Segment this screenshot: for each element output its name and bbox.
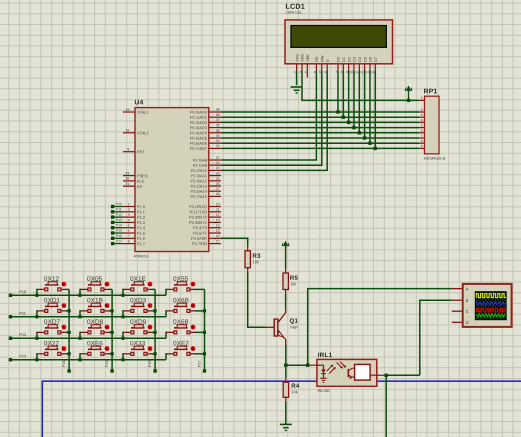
label U4 bbox=[134, 99, 143, 106]
svg-text:0XD8: 0XD8 bbox=[87, 319, 104, 326]
svg-text:38: 38 bbox=[216, 113, 220, 117]
wire LCD RW to P2.1 bbox=[221, 71, 322, 166]
label RP1 bbox=[424, 88, 438, 95]
junction scope-A branch bbox=[306, 364, 309, 367]
power VCC (RP1) bbox=[405, 85, 412, 102]
svg-text:27: 27 bbox=[216, 187, 220, 191]
junction node D3/P0.3 bbox=[352, 126, 355, 129]
opto link IRL1 (IRLINK) bbox=[309, 359, 386, 386]
svg-text:23: 23 bbox=[216, 166, 220, 170]
junction col2 row4 pin bbox=[111, 352, 114, 355]
resistor R3 bbox=[245, 245, 250, 273]
wire R5 bottom to Q1 collector bbox=[285, 294, 287, 309]
terminal P14 at U4 pin 5 bbox=[111, 223, 135, 229]
svg-text:P10: P10 bbox=[116, 202, 122, 206]
svg-text:P13: P13 bbox=[116, 218, 122, 222]
oscilloscope (4-channel) bbox=[463, 284, 512, 327]
svg-text:P16: P16 bbox=[148, 360, 152, 367]
svg-text:10: 10 bbox=[216, 202, 220, 206]
wire P0.7 to RP1 pin 9 bbox=[221, 147, 419, 149]
button 0X12 (row 1 col 1) bbox=[37, 276, 69, 295]
terminal P16 at U4 pin 7 bbox=[111, 234, 135, 240]
svg-text:7: 7 bbox=[335, 70, 337, 74]
svg-text:P1.0: P1.0 bbox=[137, 204, 146, 209]
label IRLINK bbox=[317, 389, 330, 393]
label R5 value 10k bbox=[290, 282, 296, 286]
wire P0.5 to RP1 pin 7 bbox=[221, 137, 419, 139]
svg-text:26: 26 bbox=[216, 182, 220, 186]
svg-text:D0: D0 bbox=[337, 57, 341, 62]
svg-text:5: 5 bbox=[128, 223, 130, 227]
svg-text:10: 10 bbox=[349, 70, 353, 74]
wire P3.6 to R3 top bbox=[221, 238, 248, 246]
svg-text:34: 34 bbox=[216, 134, 220, 138]
svg-text:7: 7 bbox=[128, 234, 130, 238]
svg-text:P1.3: P1.3 bbox=[137, 220, 146, 225]
svg-text:33: 33 bbox=[216, 139, 220, 143]
junction node D2/P0.2 bbox=[347, 121, 350, 124]
button 0X68 (row 3 col 4) bbox=[166, 319, 205, 338]
wire keypad row 3 (P12) bbox=[10, 337, 166, 339]
svg-text:Q1: Q1 bbox=[289, 318, 298, 325]
svg-text:35: 35 bbox=[216, 129, 220, 133]
svg-text:0X05: 0X05 bbox=[87, 276, 103, 283]
resistor R4 bbox=[283, 377, 288, 402]
svg-text:0X33: 0X33 bbox=[130, 340, 146, 347]
svg-text:RESPACK-8: RESPACK-8 bbox=[424, 157, 445, 161]
svg-text:P15: P15 bbox=[105, 360, 109, 367]
junction row4 elbow col3 bbox=[121, 358, 124, 361]
svg-text:0X6B: 0X6B bbox=[173, 297, 189, 304]
wire P0.6 to RP1 pin 8 bbox=[221, 142, 419, 144]
svg-text:P2.7/A15: P2.7/A15 bbox=[191, 194, 208, 199]
junction node D6/P0.6 bbox=[368, 142, 371, 145]
wire LCD E to P2.2 bbox=[221, 71, 327, 171]
svg-text:2: 2 bbox=[421, 108, 423, 112]
svg-text:5: 5 bbox=[421, 123, 423, 127]
wire P0.1 to RP1 pin 3 bbox=[221, 116, 419, 118]
terminal P10 bbox=[9, 289, 27, 297]
wire P0.4 to RP1 pin 6 bbox=[221, 132, 419, 134]
svg-text:P3.3/INT1: P3.3/INT1 bbox=[189, 220, 208, 225]
wire LCD VSS to ground bbox=[296, 71, 298, 86]
svg-text:P1.5: P1.5 bbox=[137, 231, 146, 236]
junction col3 row4 pin bbox=[154, 352, 157, 355]
wire LCD D5 vertical bbox=[364, 71, 366, 139]
svg-text:36: 36 bbox=[216, 123, 220, 127]
wire LCD D2 vertical bbox=[348, 71, 350, 123]
svg-text:12: 12 bbox=[360, 70, 364, 74]
svg-text:7: 7 bbox=[421, 134, 423, 138]
svg-text:P3.6/WR: P3.6/WR bbox=[191, 236, 207, 241]
svg-text:P3.2/INT0: P3.2/INT0 bbox=[189, 215, 208, 220]
junction node D5/P0.5 bbox=[363, 136, 366, 139]
RP1 pin numbers 1-9 bbox=[421, 96, 423, 148]
svg-text:D: D bbox=[466, 320, 469, 325]
svg-text:28: 28 bbox=[216, 192, 220, 196]
U4 left pin numbers bbox=[125, 108, 129, 186]
button 0XD7 (row 3 col 1) bbox=[37, 319, 69, 338]
junction col2 row3 pin bbox=[111, 331, 114, 334]
svg-text:R4: R4 bbox=[291, 383, 300, 390]
svg-text:2: 2 bbox=[128, 208, 130, 212]
svg-text:PNP: PNP bbox=[290, 326, 298, 330]
LCD pin stubs bbox=[297, 64, 376, 77]
junction col1 row4 pin bbox=[68, 352, 71, 355]
svg-text:LM016L: LM016L bbox=[286, 10, 303, 15]
wire blue bus (bottom-left L shape) bbox=[42, 381, 521, 437]
wire node to IRL1 input bbox=[286, 364, 309, 366]
wire LCD D3 vertical bbox=[353, 71, 355, 128]
terminal P12 bbox=[9, 332, 27, 340]
terminal P13 at U4 pin 4 bbox=[111, 218, 135, 224]
junction row4 elbow col2 bbox=[78, 358, 81, 361]
svg-text:4: 4 bbox=[128, 218, 130, 222]
junction row2 elbow col1 bbox=[35, 315, 38, 318]
svg-text:P10: P10 bbox=[19, 289, 27, 294]
ground (R4) bbox=[280, 424, 292, 430]
button 0XD3 (row 2 col 3) bbox=[123, 297, 155, 316]
terminal P15 at U4 pin 6 bbox=[111, 229, 135, 235]
svg-text:0X55: 0X55 bbox=[173, 276, 189, 283]
junction row1 elbow col3 bbox=[121, 294, 124, 297]
wire keypad column 4 (P17) bbox=[204, 289, 206, 369]
svg-text:6: 6 bbox=[421, 129, 423, 133]
svg-text:P11: P11 bbox=[116, 207, 122, 211]
svg-text:0XD7: 0XD7 bbox=[44, 319, 61, 326]
button 0X6B (row 2 col 4) bbox=[166, 297, 205, 316]
junction node D1/P0.1 bbox=[342, 116, 345, 119]
svg-text:PSEN: PSEN bbox=[137, 173, 148, 178]
U4 right pin stubs bbox=[209, 112, 221, 244]
svg-text:0XD3: 0XD3 bbox=[130, 297, 147, 304]
junction IRL1 output branch bbox=[385, 374, 388, 377]
svg-text:6: 6 bbox=[324, 70, 326, 74]
svg-text:P11: P11 bbox=[19, 311, 26, 316]
svg-text:1: 1 bbox=[128, 202, 130, 206]
wire LCD D6 vertical bbox=[369, 71, 371, 144]
label R4 value 10k bbox=[291, 390, 297, 394]
junction col1 row2 pin bbox=[68, 309, 71, 312]
label R3 value 10k bbox=[253, 260, 259, 264]
svg-text:P3.1/TXD: P3.1/TXD bbox=[190, 209, 207, 214]
terminal P14 bbox=[62, 360, 71, 372]
svg-text:RP1: RP1 bbox=[424, 88, 438, 95]
svg-text:21: 21 bbox=[216, 156, 220, 160]
svg-text:R3: R3 bbox=[252, 253, 261, 260]
svg-text:P1.2: P1.2 bbox=[137, 215, 146, 220]
svg-text:D5: D5 bbox=[363, 57, 367, 62]
svg-text:P14: P14 bbox=[116, 223, 122, 227]
svg-text:8: 8 bbox=[421, 139, 423, 143]
wire R4 top bbox=[285, 365, 287, 377]
junction col4 row2 pin bbox=[203, 309, 206, 312]
svg-text:14: 14 bbox=[216, 223, 220, 227]
terminal P11 at U4 pin 2 bbox=[111, 207, 135, 213]
svg-text:11: 11 bbox=[216, 208, 220, 212]
svg-text:EA: EA bbox=[137, 184, 143, 189]
svg-text:11: 11 bbox=[355, 70, 359, 74]
svg-text:P1.1: P1.1 bbox=[137, 209, 146, 214]
U4 right pin numbers bbox=[216, 108, 220, 244]
svg-text:0X1B: 0X1B bbox=[87, 297, 103, 304]
svg-text:1: 1 bbox=[421, 96, 423, 100]
svg-text:P3.4/T0: P3.4/T0 bbox=[193, 225, 208, 230]
svg-text:P17: P17 bbox=[116, 239, 122, 243]
svg-text:P1.7: P1.7 bbox=[137, 241, 146, 246]
wire P0.3 to RP1 pin 5 bbox=[221, 127, 419, 129]
junction col4 row4 pin bbox=[203, 352, 206, 355]
wire keypad column 2 (P15) bbox=[111, 289, 113, 369]
svg-text:P15: P15 bbox=[116, 229, 122, 233]
LCD LCD1 (LM016L) bbox=[285, 20, 393, 64]
svg-text:P1.6: P1.6 bbox=[137, 236, 146, 241]
svg-text:29: 29 bbox=[125, 171, 129, 175]
button 0XD9 (row 3 col 3) bbox=[123, 319, 155, 338]
label AT89C51 bbox=[134, 254, 149, 258]
svg-text:RST: RST bbox=[137, 149, 146, 154]
svg-text:19: 19 bbox=[125, 108, 129, 112]
junction col3 row3 pin bbox=[154, 331, 157, 334]
wire IRL1 output bbox=[385, 374, 420, 376]
label LM016L bbox=[286, 10, 303, 15]
wire LCD VDD to VCC rail and RP1 pin 1 bbox=[302, 71, 419, 101]
svg-text:P12: P12 bbox=[19, 332, 26, 337]
terminal P17 bbox=[198, 360, 207, 372]
svg-text:9: 9 bbox=[346, 70, 348, 74]
svg-text:RS: RS bbox=[315, 56, 319, 62]
button 0X33 (row 4 col 3) bbox=[123, 340, 155, 359]
wire LCD RS to P2.0 bbox=[221, 71, 317, 161]
svg-text:22: 22 bbox=[216, 161, 220, 165]
button 0X05 (row 1 col 2) bbox=[80, 276, 112, 295]
svg-text:R5: R5 bbox=[290, 275, 299, 282]
wire VCC to R5 top bbox=[285, 247, 287, 268]
svg-text:37: 37 bbox=[216, 118, 220, 122]
svg-text:E: E bbox=[326, 59, 330, 62]
wire LCD D0 vertical bbox=[337, 71, 339, 113]
svg-text:0X12: 0X12 bbox=[44, 276, 60, 283]
button 0XD8 (row 3 col 2) bbox=[80, 319, 112, 338]
microcontroller U4 (AT89C51) bbox=[135, 108, 209, 252]
svg-text:0XE2: 0XE2 bbox=[173, 340, 189, 347]
button 0X55 (row 1 col 4) bbox=[166, 276, 205, 295]
junction col2 row2 pin bbox=[111, 309, 114, 312]
svg-text:25: 25 bbox=[216, 177, 220, 181]
terminal P10 at U4 pin 1 bbox=[111, 202, 135, 208]
svg-text:1: 1 bbox=[294, 70, 296, 74]
label R4 bbox=[291, 383, 300, 390]
svg-text:12: 12 bbox=[216, 213, 220, 217]
svg-text:3: 3 bbox=[421, 113, 423, 117]
junction row2 elbow col2 bbox=[78, 315, 81, 318]
junction node D4/P0.4 bbox=[358, 131, 361, 134]
junction node D0/P0.0 bbox=[336, 110, 339, 113]
svg-text:16: 16 bbox=[216, 234, 220, 238]
label LCD1 bbox=[285, 2, 305, 11]
svg-text:B: B bbox=[466, 298, 469, 303]
svg-text:D3: D3 bbox=[353, 57, 357, 62]
label R5 bbox=[290, 275, 299, 282]
svg-text:13: 13 bbox=[365, 70, 369, 74]
button 0X1E (row 1 col 3) bbox=[123, 276, 155, 295]
wire LCD D1 vertical bbox=[342, 71, 344, 118]
wire keypad column 3 (P16) bbox=[154, 289, 156, 369]
svg-text:3: 3 bbox=[128, 213, 130, 217]
wire R4 bottom to ground bbox=[285, 402, 287, 425]
svg-text:0X22: 0X22 bbox=[44, 340, 60, 347]
power VCC (R5) bbox=[282, 241, 289, 248]
wire P0.2 to RP1 pin 4 bbox=[221, 121, 419, 123]
svg-text:P1.4: P1.4 bbox=[137, 225, 146, 230]
button 0XE6 (row 4 col 2) bbox=[80, 340, 112, 359]
svg-text:5: 5 bbox=[319, 70, 321, 74]
svg-text:P13: P13 bbox=[19, 354, 26, 359]
svg-text:D7: D7 bbox=[374, 57, 378, 62]
transistor Q1 (PNP) bbox=[267, 308, 286, 345]
svg-text:10k: 10k bbox=[291, 390, 297, 394]
svg-text:ALE: ALE bbox=[137, 179, 145, 184]
svg-text:15: 15 bbox=[216, 229, 220, 233]
junction node D7/P0.7 bbox=[374, 147, 377, 150]
svg-text:VEE: VEE bbox=[306, 54, 310, 62]
svg-text:IRL1: IRL1 bbox=[318, 352, 333, 359]
svg-text:9: 9 bbox=[127, 147, 129, 151]
svg-text:13: 13 bbox=[216, 218, 220, 222]
wire LCD D4 vertical bbox=[358, 71, 360, 133]
RP1 pin stubs bbox=[419, 100, 424, 148]
svg-text:10k: 10k bbox=[253, 260, 259, 264]
svg-text:24: 24 bbox=[216, 171, 220, 175]
wire IRL1 output down to edge bbox=[385, 375, 387, 437]
svg-text:0XE6: 0XE6 bbox=[87, 340, 103, 347]
label RESPACK-8 bbox=[424, 157, 445, 161]
junction col4 row3 pin bbox=[203, 331, 206, 334]
button 0XE2 (row 4 col 4) bbox=[166, 340, 205, 359]
wire keypad column 1 (P14) bbox=[68, 289, 70, 369]
junction row3 elbow col2 bbox=[78, 337, 81, 340]
junction row2 elbow col3 bbox=[121, 315, 124, 318]
svg-text:6: 6 bbox=[128, 229, 130, 233]
svg-text:8: 8 bbox=[341, 70, 343, 74]
wire to scope channel B bbox=[420, 300, 452, 375]
label IRL1 bbox=[318, 352, 333, 359]
terminal P13 bbox=[9, 354, 27, 362]
junction col3 row2 pin bbox=[154, 309, 157, 312]
terminal P11 bbox=[9, 311, 26, 319]
junction col1 row3 pin bbox=[68, 331, 71, 334]
terminal P16 bbox=[148, 360, 157, 372]
svg-text:P14: P14 bbox=[62, 360, 66, 367]
svg-text:3: 3 bbox=[305, 70, 307, 74]
svg-text:A: A bbox=[466, 286, 469, 291]
LCD pin numbers 1-14 bbox=[294, 70, 375, 74]
svg-text:30: 30 bbox=[125, 177, 129, 181]
svg-text:2: 2 bbox=[299, 70, 301, 74]
wire P0.0 to RP1 pin 2 bbox=[221, 111, 419, 113]
svg-text:D1: D1 bbox=[342, 57, 346, 62]
svg-text:VDD: VDD bbox=[301, 54, 305, 62]
svg-text:P3.7/RD: P3.7/RD bbox=[192, 241, 207, 246]
svg-text:P3.5/T1: P3.5/T1 bbox=[193, 231, 208, 236]
svg-text:18: 18 bbox=[125, 129, 129, 133]
button 0XD1 (row 2 col 1) bbox=[37, 297, 69, 316]
label R3 bbox=[252, 253, 261, 260]
svg-text:D6: D6 bbox=[369, 57, 373, 62]
svg-text:P17: P17 bbox=[198, 360, 202, 367]
label Q1 type PNP bbox=[290, 326, 298, 330]
svg-text:10k: 10k bbox=[290, 282, 296, 286]
wire LCD D7 vertical bbox=[374, 71, 376, 149]
wire R3 bottom to Q1 base bbox=[248, 272, 267, 327]
button 0X1B (row 2 col 2) bbox=[80, 297, 112, 316]
button 0X22 (row 4 col 1) bbox=[37, 340, 69, 359]
svg-text:32: 32 bbox=[216, 144, 220, 148]
svg-text:IRLINK: IRLINK bbox=[317, 389, 330, 393]
junction row3 elbow col3 bbox=[121, 337, 124, 340]
svg-text:D2: D2 bbox=[347, 57, 351, 62]
junction row1 elbow col2 bbox=[78, 294, 81, 297]
svg-text:4: 4 bbox=[421, 118, 423, 122]
terminal P15 bbox=[105, 360, 114, 372]
wire keypad row 2 (P11) bbox=[10, 316, 166, 318]
svg-text:39: 39 bbox=[216, 108, 220, 112]
resistor pack RP1 (RESPACK-8) bbox=[425, 96, 440, 154]
junction row3 elbow col1 bbox=[35, 337, 38, 340]
svg-text:31: 31 bbox=[125, 182, 129, 186]
svg-text:D4: D4 bbox=[358, 57, 362, 62]
svg-text:P0.7/AD7: P0.7/AD7 bbox=[190, 146, 208, 151]
wire node to scope channel A bbox=[308, 289, 452, 366]
junction row4 elbow col1 bbox=[35, 358, 38, 361]
wire Q1 emitter to node bbox=[285, 345, 287, 366]
resistor R5 bbox=[283, 268, 288, 294]
U4 left pin stubs (XTAL1,XTAL2,RST,PSEN,ALE,EA) bbox=[123, 112, 135, 186]
svg-text:P12: P12 bbox=[116, 213, 122, 217]
terminal P12 at U4 pin 3 bbox=[111, 213, 135, 219]
svg-text:AT89C51: AT89C51 bbox=[134, 254, 149, 258]
junction row1 elbow col1 bbox=[35, 294, 38, 297]
svg-text:14: 14 bbox=[371, 70, 375, 74]
svg-text:0XD1: 0XD1 bbox=[44, 297, 61, 304]
svg-text:P16: P16 bbox=[116, 234, 122, 238]
junction node Q1/R4/IRL1 bbox=[284, 364, 287, 367]
svg-text:P3.0/RXD: P3.0/RXD bbox=[189, 204, 207, 209]
terminal P17 at U4 pin 8 bbox=[111, 239, 135, 245]
ground (LCD VSS) bbox=[291, 87, 303, 93]
svg-text:0XD9: 0XD9 bbox=[130, 319, 147, 326]
svg-text:0X1E: 0X1E bbox=[130, 276, 147, 283]
svg-text:VSS: VSS bbox=[295, 54, 299, 62]
svg-text:XTAL2: XTAL2 bbox=[137, 130, 150, 135]
wire keypad row 4 (P13) bbox=[10, 359, 166, 361]
svg-text:XTAL1: XTAL1 bbox=[137, 110, 150, 115]
wire keypad row 1 (P10) bbox=[10, 294, 166, 296]
svg-text:9: 9 bbox=[421, 144, 423, 148]
oscilloscope pin stubs A-D bbox=[452, 289, 463, 323]
label Q1 bbox=[289, 318, 298, 325]
svg-text:U4: U4 bbox=[134, 99, 143, 106]
svg-text:4: 4 bbox=[314, 70, 316, 74]
svg-text:RW: RW bbox=[321, 55, 325, 62]
svg-text:17: 17 bbox=[216, 239, 220, 243]
svg-text:0X68: 0X68 bbox=[173, 319, 189, 326]
svg-text:8: 8 bbox=[128, 239, 130, 243]
svg-text:C: C bbox=[466, 309, 469, 314]
